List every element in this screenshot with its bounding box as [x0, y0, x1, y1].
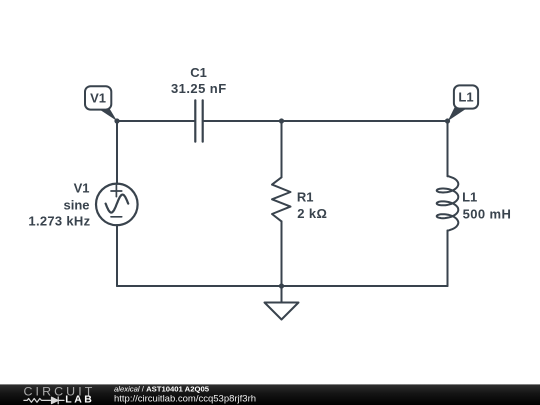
voltage source V1 circle: [96, 184, 138, 226]
junction node top-right: [445, 118, 450, 123]
svg-text:V1: V1: [90, 90, 106, 105]
ground symbol: [265, 303, 299, 320]
V1 plus sign: [111, 185, 122, 196]
wire top-right segment: [204, 120, 448, 122]
logo diode: [52, 397, 59, 403]
svg-text:C1: C1: [190, 65, 207, 80]
node flag L1 box: [454, 85, 478, 108]
node flag V1 box: [85, 86, 111, 109]
wire left branch lower: [116, 225, 118, 286]
svg-text:2 kΩ: 2 kΩ: [297, 206, 327, 221]
V1 minus sign: [111, 216, 122, 218]
svg-text:L1: L1: [458, 89, 473, 104]
node flag L1 pointer: [448, 108, 467, 122]
svg-text:R1: R1: [297, 189, 314, 204]
svg-text:1.273 kHz: 1.273 kHz: [28, 214, 90, 229]
resistor R1: [272, 177, 291, 221]
capacitor C1: [195, 100, 202, 141]
wire bottom segment: [117, 285, 448, 287]
V1 sine mark: [106, 195, 129, 213]
junction node top-left: [114, 118, 119, 123]
ground stub wire: [281, 286, 283, 303]
wire right branch lower: [447, 231, 449, 287]
wire left branch upper: [116, 121, 118, 184]
wire right branch upper: [447, 121, 449, 176]
wire middle branch lower: [281, 221, 283, 286]
svg-text:L1: L1: [462, 190, 477, 205]
junction node top-middle: [279, 118, 284, 123]
wire top-left segment: [117, 120, 194, 122]
logo resistor zigzag: [24, 399, 52, 403]
svg-text:V1: V1: [74, 181, 90, 196]
svg-text:31.25 nF: 31.25 nF: [171, 81, 227, 96]
junction node bottom: [279, 283, 284, 288]
svg-text:500 mH: 500 mH: [463, 206, 512, 221]
svg-text:http://circuitlab.com/ccq53p8r: http://circuitlab.com/ccq53p8rjf3rh: [114, 394, 256, 405]
svg-text:sine: sine: [63, 198, 89, 213]
svg-text:alexical / AST10401 A2Q05: alexical / AST10401 A2Q05: [114, 384, 210, 393]
svg-text:LAB: LAB: [65, 393, 94, 405]
wire middle branch upper: [281, 121, 283, 177]
inductor L1: [437, 176, 459, 231]
node flag V1 pointer: [97, 108, 118, 122]
